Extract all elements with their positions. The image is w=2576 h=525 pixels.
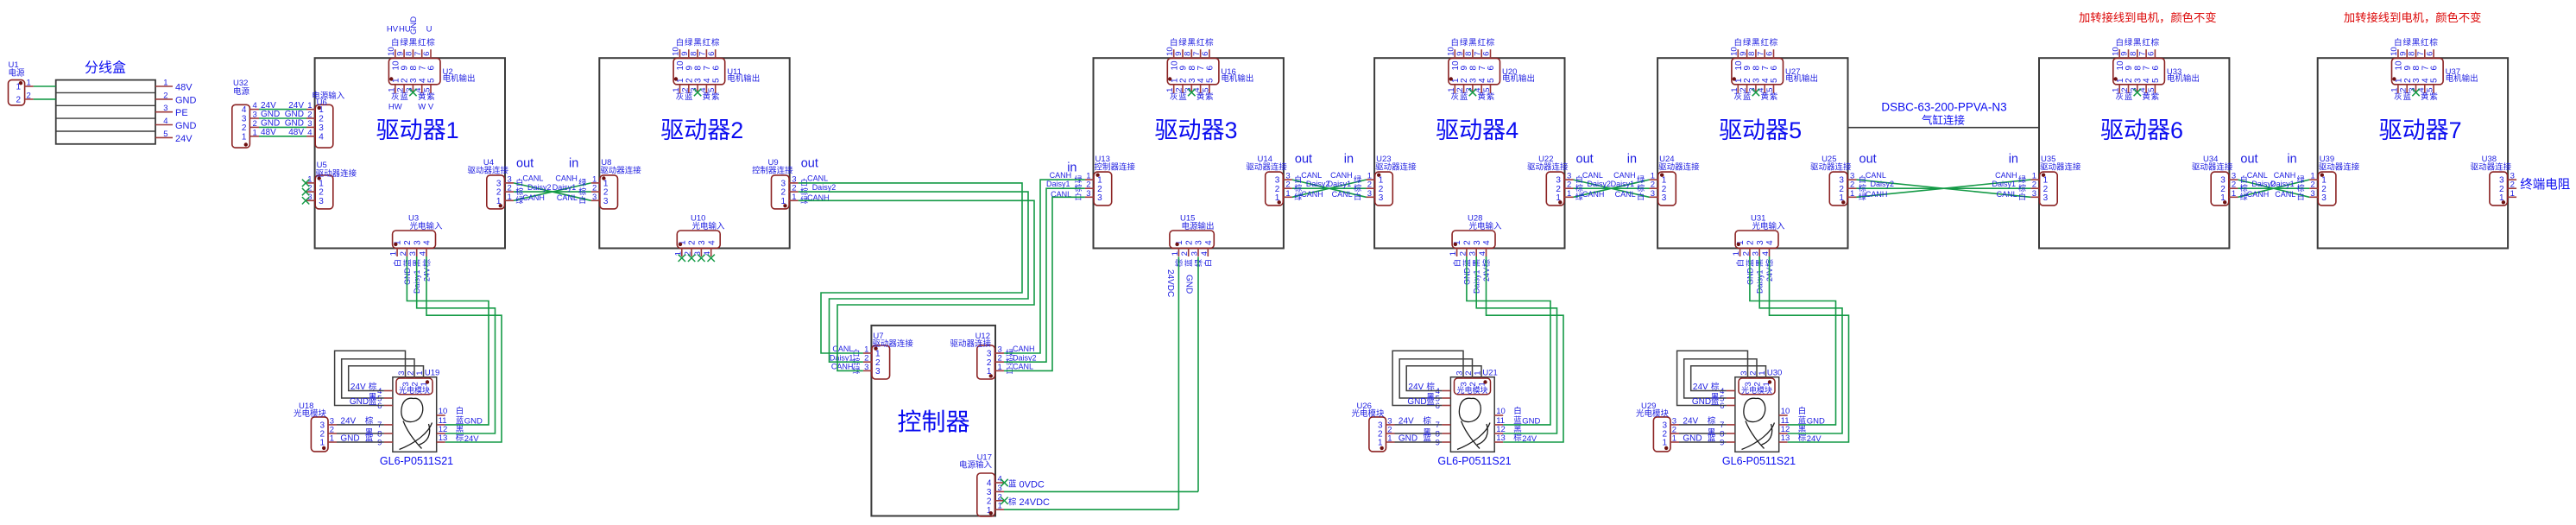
svg-text:GND: GND (340, 434, 359, 444)
svg-text:3: 3 (307, 119, 312, 129)
svg-text:白: 白 (1452, 259, 1462, 267)
svg-text:驱动器连接: 驱动器连接 (600, 166, 641, 176)
svg-text:白: 白 (393, 259, 402, 267)
svg-text:CANH: CANH (2274, 171, 2296, 180)
svg-text:光电输入: 光电输入 (410, 221, 444, 231)
svg-text:GL6-P0511S21: GL6-P0511S21 (1722, 455, 1796, 467)
svg-text:棕: 棕 (1008, 497, 1017, 507)
svg-text:5: 5 (1487, 78, 1496, 83)
svg-text:3: 3 (163, 104, 167, 113)
svg-text:驱动器2: 驱动器2 (660, 117, 743, 143)
svg-text:2: 2 (1468, 382, 1478, 386)
svg-text:24V: 24V (1683, 416, 1698, 426)
svg-text:棕: 棕 (426, 38, 435, 48)
svg-text:加转接线到电机，颜色不变: 加转接线到电机，颜色不变 (2079, 10, 2217, 24)
svg-text:白: 白 (1637, 192, 1645, 201)
svg-text:3: 3 (592, 193, 597, 202)
svg-text:绿: 绿 (685, 38, 693, 48)
svg-text:4: 4 (163, 117, 167, 126)
svg-text:紫: 紫 (2429, 92, 2438, 102)
svg-text:灰: 灰 (676, 92, 685, 102)
svg-text:紫: 紫 (1487, 92, 1495, 102)
svg-text:白: 白 (456, 406, 464, 416)
svg-text:紫: 紫 (426, 92, 435, 102)
svg-text:4: 4 (1765, 240, 1775, 245)
svg-text:电源: 电源 (233, 86, 250, 97)
svg-text:蓝: 蓝 (1184, 259, 1193, 267)
svg-text:光电输入: 光电输入 (692, 221, 726, 231)
svg-text:绿: 绿 (1178, 38, 1187, 48)
svg-text:棕: 棕 (1770, 38, 1778, 48)
svg-text:3: 3 (319, 197, 324, 206)
svg-text:U6: U6 (317, 98, 327, 107)
svg-text:3: 3 (875, 367, 881, 376)
svg-text:白: 白 (2297, 192, 2305, 201)
svg-text:4: 4 (419, 251, 428, 256)
svg-text:9: 9 (1720, 438, 1724, 447)
svg-text:棕: 棕 (1426, 382, 1435, 392)
svg-text:控制器: 控制器 (897, 408, 969, 435)
svg-text:6: 6 (1436, 402, 1440, 411)
svg-text:6: 6 (2151, 66, 2161, 71)
svg-text:电源输出: 电源输出 (1182, 221, 1215, 231)
svg-text:1: 1 (2510, 189, 2515, 199)
svg-text:U19: U19 (425, 369, 439, 378)
svg-text:紫: 紫 (2151, 92, 2160, 102)
svg-text:驱动器连接: 驱动器连接 (1527, 162, 1569, 173)
svg-text:2: 2 (27, 91, 31, 100)
svg-text:电源输入: 电源输入 (959, 460, 993, 471)
svg-text:3: 3 (2043, 193, 2049, 203)
svg-text:2: 2 (1180, 251, 1190, 256)
svg-text:红: 红 (1760, 38, 1769, 48)
svg-text:驱动器连接: 驱动器连接 (1246, 162, 1287, 173)
svg-text:白: 白 (1354, 192, 1361, 201)
svg-text:1: 1 (330, 434, 334, 444)
svg-text:24V: 24V (1398, 416, 1414, 426)
svg-text:9: 9 (1436, 438, 1440, 447)
svg-text:CANH: CANH (1301, 190, 1323, 199)
svg-text:CANH: CANH (2247, 190, 2270, 199)
svg-text:3: 3 (2321, 193, 2327, 203)
svg-text:红: 红 (1196, 38, 1205, 48)
svg-text:棕: 棕 (365, 415, 374, 426)
svg-text:驱动器连接: 驱动器连接 (1658, 162, 1700, 173)
svg-text:1: 1 (307, 101, 312, 111)
svg-text:CANL: CANL (1615, 190, 1636, 199)
svg-text:3: 3 (2310, 189, 2314, 199)
svg-text:5: 5 (1765, 88, 1775, 92)
svg-text:3: 3 (2032, 189, 2036, 199)
svg-text:5: 5 (1770, 78, 1779, 83)
svg-text:光电模块: 光电模块 (294, 408, 327, 419)
svg-text:2: 2 (1184, 240, 1194, 245)
svg-text:紫: 紫 (1770, 92, 1778, 102)
svg-text:2: 2 (16, 96, 21, 105)
svg-text:out: out (2240, 153, 2257, 167)
svg-text:Daisy1: Daisy1 (1992, 180, 2016, 188)
svg-text:终端电阻: 终端电阻 (2520, 178, 2570, 193)
svg-text:6: 6 (711, 66, 721, 71)
svg-text:CANL: CANL (807, 174, 828, 183)
svg-text:绿: 绿 (1460, 38, 1468, 48)
svg-text:黄: 黄 (2142, 92, 2150, 102)
svg-text:驱动器连接: 驱动器连接 (2040, 162, 2081, 173)
svg-text:驱动器连接: 驱动器连接 (950, 338, 991, 349)
svg-text:Daisy2: Daisy2 (1871, 180, 1895, 188)
svg-text:1: 1 (792, 193, 796, 202)
svg-text:3: 3 (1473, 240, 1482, 245)
svg-text:5: 5 (711, 78, 721, 83)
svg-text:Daisy1: Daisy1 (1328, 180, 1352, 188)
svg-text:GND: GND (261, 110, 280, 119)
svg-text:驱动器连接: 驱动器连接 (2192, 162, 2233, 173)
svg-text:蓝: 蓝 (1708, 433, 1716, 444)
svg-text:驱动器连接: 驱动器连接 (316, 168, 357, 179)
svg-text:棕: 棕 (1423, 415, 1431, 426)
svg-text:4: 4 (1204, 240, 1214, 245)
svg-text:48V: 48V (175, 83, 193, 93)
svg-text:2: 2 (688, 240, 698, 245)
svg-text:2: 2 (987, 497, 992, 506)
svg-text:加转接线到电机，颜色不变: 加转接线到电机，颜色不变 (2344, 10, 2482, 24)
svg-text:蓝: 蓝 (1711, 396, 1720, 407)
svg-text:6: 6 (377, 402, 382, 411)
svg-text:绿: 绿 (1743, 38, 1752, 48)
svg-text:24VDC: 24VDC (1020, 497, 1051, 508)
svg-text:5: 5 (1206, 78, 1215, 83)
svg-text:蓝: 蓝 (400, 92, 408, 102)
svg-text:Daisy1: Daisy1 (1046, 180, 1070, 188)
svg-text:2: 2 (319, 115, 324, 124)
svg-text:棕: 棕 (1711, 382, 1720, 392)
svg-text:Daisy2: Daisy2 (1588, 180, 1612, 188)
svg-text:光电输入: 光电输入 (1469, 221, 1503, 231)
svg-text:2: 2 (1458, 251, 1468, 256)
svg-text:10: 10 (1781, 407, 1790, 416)
svg-text:红: 红 (703, 38, 711, 48)
svg-text:4: 4 (242, 105, 247, 115)
svg-text:in: in (1627, 153, 1637, 167)
svg-text:1: 1 (1672, 434, 1676, 444)
svg-text:out: out (801, 156, 818, 170)
svg-text:黑: 黑 (1752, 39, 1760, 48)
svg-text:24V: 24V (288, 101, 304, 111)
svg-text:0VDC: 0VDC (1020, 479, 1045, 490)
svg-text:GND: GND (1683, 434, 1702, 444)
svg-text:3: 3 (1651, 189, 1655, 199)
svg-text:5: 5 (427, 78, 437, 83)
svg-text:棕: 棕 (2429, 38, 2438, 48)
svg-text:棕: 棕 (1637, 183, 1645, 193)
svg-text:电源: 电源 (9, 68, 26, 79)
svg-text:GND: GND (1398, 434, 1417, 444)
svg-text:24V: 24V (1408, 383, 1424, 392)
svg-text:棕: 棕 (2297, 183, 2305, 193)
svg-text:CANL: CANL (832, 345, 853, 353)
svg-text:白: 白 (1735, 259, 1745, 267)
svg-text:HW: HW (388, 103, 402, 112)
svg-text:驱动器1: 驱动器1 (376, 117, 459, 143)
svg-text:1: 1 (1171, 251, 1180, 256)
svg-text:4: 4 (707, 240, 717, 245)
svg-text:1: 1 (1732, 251, 1741, 256)
svg-text:3: 3 (242, 115, 247, 124)
svg-text:CANH: CANH (1013, 345, 1035, 353)
svg-text:光电模块: 光电模块 (1352, 408, 1386, 419)
svg-text:1: 1 (508, 193, 512, 202)
svg-text:气缸连接: 气缸连接 (1922, 114, 1966, 127)
svg-text:驱动器连接: 驱动器连接 (467, 166, 508, 176)
svg-text:3: 3 (603, 197, 609, 206)
svg-text:蓝: 蓝 (1423, 433, 1431, 444)
svg-text:4: 4 (253, 101, 257, 111)
svg-text:蓝: 蓝 (1460, 92, 1468, 102)
svg-text:Daisy1: Daisy1 (830, 353, 854, 362)
svg-text:控制器连接: 控制器连接 (752, 166, 793, 176)
svg-text:白: 白 (1734, 38, 1743, 48)
svg-text:3: 3 (1460, 382, 1469, 386)
svg-text:CANH: CANH (522, 193, 545, 202)
svg-text:驱动器连接: 驱动器连接 (872, 338, 913, 349)
svg-text:3: 3 (1468, 251, 1478, 256)
svg-text:CANL: CANL (557, 193, 578, 202)
svg-text:5: 5 (2426, 88, 2435, 92)
svg-text:Daisy1: Daisy1 (552, 183, 577, 192)
svg-text:1: 1 (253, 128, 257, 137)
svg-text:W: W (418, 103, 426, 112)
svg-text:驱动器7: 驱动器7 (2379, 117, 2462, 143)
svg-text:2: 2 (1463, 240, 1473, 245)
svg-text:3: 3 (413, 240, 422, 245)
svg-text:GND: GND (409, 16, 419, 35)
svg-text:红: 红 (2142, 38, 2150, 48)
svg-text:V: V (428, 103, 434, 112)
svg-text:out: out (1859, 153, 1877, 167)
svg-text:6: 6 (1206, 66, 1215, 71)
svg-text:in: in (2009, 153, 2018, 167)
svg-text:CANL: CANL (1332, 190, 1353, 199)
svg-text:2: 2 (242, 123, 247, 133)
svg-text:1: 1 (998, 363, 1002, 372)
svg-text:绿: 绿 (2297, 174, 2305, 184)
svg-text:1: 1 (1387, 434, 1392, 444)
svg-text:5: 5 (423, 88, 432, 92)
svg-text:CANH: CANH (1613, 171, 1636, 180)
svg-text:GND: GND (285, 110, 304, 119)
svg-text:分线盒: 分线盒 (85, 60, 126, 76)
svg-text:蓝: 蓝 (2125, 92, 2133, 102)
svg-text:白: 白 (2115, 38, 2124, 48)
svg-text:5: 5 (2147, 88, 2156, 92)
svg-text:6: 6 (427, 66, 437, 71)
svg-text:红: 红 (418, 38, 426, 48)
svg-text:绿: 绿 (1637, 174, 1645, 184)
svg-text:黄: 黄 (418, 92, 426, 102)
svg-text:绿: 绿 (1354, 174, 1361, 184)
svg-text:6: 6 (422, 52, 432, 56)
svg-text:白: 白 (391, 38, 400, 48)
svg-text:Daisy2: Daisy2 (527, 183, 552, 192)
svg-text:电机输出: 电机输出 (2446, 73, 2478, 84)
svg-text:4: 4 (319, 132, 324, 142)
svg-text:白: 白 (1451, 38, 1460, 48)
svg-text:控制器连接: 控制器连接 (1095, 162, 1136, 173)
svg-text:48V: 48V (288, 128, 304, 137)
svg-text:驱动器4: 驱动器4 (1436, 117, 1518, 143)
svg-text:白: 白 (2018, 192, 2026, 201)
svg-text:in: in (2287, 153, 2296, 167)
svg-text:in: in (1344, 153, 1354, 167)
svg-text:绿: 绿 (578, 178, 586, 187)
svg-text:灰: 灰 (1451, 92, 1460, 102)
svg-text:绿: 绿 (2125, 38, 2133, 48)
svg-text:绿: 绿 (2018, 174, 2026, 184)
svg-text:24V: 24V (340, 416, 356, 426)
svg-text:24V: 24V (261, 101, 276, 111)
svg-text:in: in (569, 156, 578, 170)
svg-text:1: 1 (1567, 189, 1571, 199)
svg-text:白: 白 (1513, 406, 1522, 416)
svg-text:U: U (426, 25, 432, 35)
svg-text:48V: 48V (261, 128, 276, 137)
svg-text:10: 10 (439, 407, 448, 416)
svg-text:黑: 黑 (409, 39, 418, 48)
svg-text:灰: 灰 (1170, 92, 1178, 102)
svg-text:4: 4 (1482, 240, 1492, 245)
svg-text:24V: 24V (1693, 383, 1708, 392)
svg-text:4: 4 (987, 479, 992, 489)
svg-text:Daisy1: Daisy1 (2270, 180, 2295, 188)
svg-text:Daisy2: Daisy2 (812, 183, 837, 192)
svg-text:out: out (1295, 153, 1312, 167)
svg-text:GND: GND (1407, 397, 1426, 407)
svg-text:4: 4 (423, 240, 432, 245)
svg-text:黄: 黄 (1477, 92, 1486, 102)
svg-text:2: 2 (1741, 251, 1751, 256)
svg-text:GND: GND (175, 121, 197, 131)
svg-text:驱动器连接: 驱动器连接 (1375, 162, 1417, 173)
svg-text:棕: 棕 (2151, 38, 2160, 48)
svg-text:3: 3 (1190, 251, 1200, 256)
svg-text:黑: 黑 (693, 39, 702, 48)
svg-text:CANL: CANL (2275, 190, 2295, 199)
svg-text:CANL: CANL (1582, 171, 1603, 180)
svg-text:3: 3 (1756, 240, 1765, 245)
svg-text:6: 6 (1482, 52, 1492, 56)
svg-text:蓝: 蓝 (1178, 92, 1187, 102)
svg-text:CANL: CANL (1997, 190, 2017, 199)
svg-text:out: out (516, 156, 534, 170)
svg-text:灰: 灰 (2394, 92, 2402, 102)
svg-text:9: 9 (377, 438, 382, 447)
svg-text:GND: GND (1692, 397, 1711, 407)
svg-text:5: 5 (1482, 88, 1492, 92)
svg-text:绿: 绿 (2402, 38, 2411, 48)
svg-text:黑: 黑 (2133, 39, 2142, 48)
svg-text:驱动器连接: 驱动器连接 (2319, 162, 2360, 173)
svg-text:蓝: 蓝 (1743, 92, 1752, 102)
svg-text:CANH: CANH (1995, 171, 2017, 180)
svg-text:6: 6 (1720, 402, 1724, 411)
svg-text:3: 3 (319, 123, 324, 133)
svg-text:棕: 棕 (578, 187, 586, 196)
svg-text:2: 2 (1746, 240, 1756, 245)
svg-text:蓝: 蓝 (1008, 479, 1017, 490)
svg-text:蓝: 蓝 (2402, 92, 2411, 102)
svg-text:驱动器6: 驱动器6 (2100, 117, 2183, 143)
svg-text:2: 2 (1753, 382, 1763, 386)
svg-text:CANL: CANL (522, 174, 543, 183)
svg-text:绿: 绿 (400, 38, 408, 48)
svg-text:5: 5 (163, 130, 167, 139)
svg-text:黄: 黄 (1760, 92, 1769, 102)
svg-text:GND: GND (285, 119, 304, 129)
svg-text:HV: HV (387, 25, 399, 35)
svg-text:白: 白 (676, 38, 685, 48)
svg-text:24V: 24V (175, 134, 193, 144)
svg-text:黑: 黑 (1468, 39, 1477, 48)
svg-text:GL6-P0511S21: GL6-P0511S21 (380, 455, 453, 467)
svg-text:电机输出: 电机输出 (1785, 73, 1818, 84)
svg-text:6: 6 (2147, 52, 2156, 56)
svg-text:棕: 棕 (2018, 183, 2026, 193)
svg-text:1: 1 (1285, 189, 1290, 199)
svg-text:3: 3 (1752, 251, 1761, 256)
svg-text:6: 6 (2430, 66, 2440, 71)
svg-text:5: 5 (1201, 88, 1210, 92)
svg-text:棕: 棕 (711, 38, 720, 48)
svg-text:1: 1 (242, 132, 247, 142)
svg-text:驱动器连接: 驱动器连接 (2471, 162, 2512, 173)
svg-text:5: 5 (707, 88, 717, 92)
svg-text:GND: GND (261, 119, 280, 129)
svg-text:黄: 黄 (703, 92, 711, 102)
svg-text:红: 红 (1477, 38, 1486, 48)
svg-text:CANH: CANH (555, 174, 578, 183)
svg-text:out: out (1576, 153, 1594, 167)
svg-text:3: 3 (1367, 189, 1372, 199)
svg-text:24VDC: 24VDC (1165, 269, 1175, 297)
svg-text:3: 3 (1097, 193, 1102, 203)
svg-text:白: 白 (1203, 259, 1213, 267)
svg-text:紫: 紫 (711, 92, 720, 102)
svg-text:GND: GND (175, 95, 197, 105)
svg-text:蓝: 蓝 (1426, 396, 1435, 407)
svg-text:3: 3 (401, 382, 411, 386)
svg-text:Daisy1: Daisy1 (1611, 180, 1635, 188)
svg-text:U30: U30 (1767, 369, 1782, 378)
svg-text:电机输出: 电机输出 (1502, 73, 1535, 84)
svg-text:2: 2 (307, 111, 312, 120)
svg-text:3: 3 (1662, 193, 1667, 203)
svg-text:蓝: 蓝 (365, 433, 374, 444)
svg-text:电机输出: 电机输出 (443, 73, 476, 84)
svg-text:PE: PE (175, 108, 188, 118)
svg-text:1: 1 (163, 79, 167, 88)
svg-text:CANH: CANH (1050, 171, 1072, 180)
svg-text:灰: 灰 (391, 92, 400, 102)
svg-text:2: 2 (399, 251, 408, 256)
svg-text:电机输出: 电机输出 (727, 73, 760, 84)
svg-text:5: 5 (2430, 78, 2440, 83)
svg-text:电机输出: 电机输出 (2167, 73, 2200, 84)
svg-text:CANL: CANL (2247, 171, 2268, 180)
svg-text:光电输入: 光电输入 (1752, 221, 1786, 231)
svg-text:1: 1 (2232, 189, 2236, 199)
svg-text:白: 白 (2394, 38, 2402, 48)
svg-text:U21: U21 (1482, 369, 1497, 378)
